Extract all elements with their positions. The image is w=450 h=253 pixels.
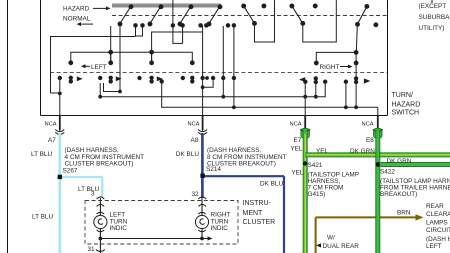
wire: U loop right 1 [255, 0, 275, 42]
svg-text:LT BLU: LT BLU [78, 186, 99, 193]
svg-text:DK BLU: DK BLU [176, 151, 199, 158]
svg-text:DK GRN: DK GRN [350, 148, 375, 155]
wire: U loop pole 2 [173, 25, 183, 43]
lamp RIGHT TURN INDIC [195, 198, 208, 239]
wire DK GRN/green E8 vertical [375, 131, 380, 253]
svg-text:CLUSTER: CLUSTER [243, 219, 276, 226]
wire: feed from top to pole 2 [172, 0, 174, 25]
svg-text:INDIC: INDIC [110, 225, 128, 232]
switch common bus bar (gray) [112, 4, 221, 8]
svg-text:SWITCH: SWITCH [392, 110, 420, 117]
svg-text:DK GRN: DK GRN [387, 158, 412, 165]
svg-text:NCA: NCA [45, 122, 57, 128]
svg-text:G415): G415) [308, 191, 326, 198]
svg-text:DUAL REAR: DUAL REAR [323, 243, 360, 250]
svg-text:S267: S267 [63, 168, 78, 175]
svg-text:RIGHT: RIGHT [320, 64, 340, 71]
svg-text:(EXCEPT: (EXCEPT [419, 3, 447, 10]
blade pole 7 [356, 5, 369, 27]
blade pole 2 [148, 5, 163, 26]
wire: page left border [7, 0, 9, 253]
wire: drop to line A [222, 26, 224, 97]
svg-text:REAR: REAR [426, 203, 444, 210]
contact pair pole 2 [171, 24, 184, 27]
svg-text:LEFT: LEFT [426, 243, 442, 250]
blade pole 6 [290, 4, 305, 25]
wire: pole 3 link [152, 32, 203, 43]
text REAR CLEARANCE LAMPS CIRCUIT [426, 203, 450, 250]
svg-text:HAZARD: HAZARD [63, 6, 90, 13]
wire: hook to pole1 drop [104, 83, 121, 92]
svg-text:S422: S422 [380, 169, 395, 176]
contact pair pole 1 [134, 24, 144, 27]
contact dot [262, 4, 266, 8]
blade pole 4 [207, 5, 222, 26]
wire: U loop pole 1 [136, 25, 143, 36]
blade pole 3 [178, 5, 193, 26]
contact pair pole 4 [226, 24, 235, 27]
svg-text:CIRCUIT: CIRCUIT [426, 227, 450, 234]
svg-text:CLUSTER BREAKOUT): CLUSTER BREAKOUT) [65, 161, 134, 168]
label HAZARD with arrow [63, 6, 111, 13]
turn/hazard switch box [41, 0, 388, 116]
label LEFT with arrow [81, 64, 107, 71]
wire green bar A [305, 152, 450, 157]
wire DK BLU from A8 [202, 133, 284, 253]
wire: line A [100, 82, 325, 97]
svg-text:3: 3 [91, 191, 95, 198]
label NORMAL with arrow [63, 16, 93, 27]
switch contacts: top row blades and dots [118, 4, 378, 27]
svg-text:INDIC: INDIC [211, 225, 229, 232]
wire: A8 column [202, 25, 204, 131]
svg-text:E8: E8 [366, 137, 374, 144]
wire YEL/green E7 vertical [303, 131, 308, 253]
svg-text:YEL: YEL [291, 170, 304, 177]
wire stubs to connectors [60, 116, 378, 131]
label W/ DUAL REAR [316, 235, 359, 251]
switch position dashed line (left/right row) [50, 72, 387, 74]
svg-text:BRN: BRN [397, 210, 411, 217]
contact dot [313, 4, 317, 8]
wire: riser to right bus [356, 24, 357, 52]
svg-text:NCA: NCA [362, 122, 374, 128]
blade pole 5 [242, 4, 257, 25]
svg-text:32: 32 [192, 191, 200, 198]
text dash harness A7 [65, 147, 145, 168]
svg-text:HAZARD: HAZARD [392, 102, 421, 109]
svg-text:YEL: YEL [316, 148, 329, 155]
connector symbol E7 [300, 129, 310, 139]
svg-text:(DASH HARNESS: (DASH HARNESS [426, 236, 450, 243]
lamp LEFT TURN INDIC [94, 198, 107, 239]
right row lower contacts [301, 77, 370, 84]
wire: vertical through left bus [110, 26, 112, 63]
wire: lamp return bus [99, 236, 213, 240]
contact dot [374, 23, 378, 27]
svg-text:SUBURBAN,: SUBURBAN, [419, 14, 450, 21]
svg-text:DK BLU: DK BLU [260, 181, 283, 188]
connector symbol E8 [373, 129, 383, 139]
svg-text:LEFT: LEFT [91, 64, 107, 71]
splice S422 [376, 162, 396, 175]
svg-text:BREAKOUT): BREAKOUT) [380, 191, 417, 198]
pin symbol cluster 3 [97, 197, 105, 199]
label EXCEPT SUBURBAN UTILITY [419, 0, 450, 32]
text tailstop harness S422 [380, 178, 450, 198]
blade pole 1 [118, 5, 133, 26]
wire BRN [316, 214, 424, 253]
lower internal wiring [51, 24, 378, 131]
svg-text:W/: W/ [327, 235, 335, 242]
wire: vertical through left bus 2 [151, 43, 153, 62]
splice S267 [58, 168, 78, 180]
svg-text:CLEARANCE: CLEARANCE [426, 211, 450, 218]
contact pair pole 3 [199, 24, 208, 27]
LEFT bus bar [69, 50, 194, 64]
label INSTRUMENT CLUSTER [243, 200, 276, 226]
wire: pole1 drop [119, 24, 121, 92]
svg-text:UTILITY): UTILITY) [419, 25, 445, 32]
text tailstop harness S421 [308, 172, 360, 199]
wire: E8 column [377, 107, 379, 131]
wire: right bus left leg to line A [315, 82, 317, 97]
svg-text:NCA: NCA [188, 122, 200, 128]
wire: loop pole1 to A7 drop [51, 37, 136, 94]
svg-text:LAMPS: LAMPS [426, 220, 448, 227]
svg-text:CLUSTER BREAKOUT): CLUSTER BREAKOUT) [207, 161, 276, 168]
wire: hook to A8 column [203, 79, 214, 87]
svg-text:LT BLU: LT BLU [32, 214, 53, 221]
label TURN/HAZARD SWITCH [392, 92, 421, 117]
left row lower contacts [58, 76, 236, 83]
svg-text:A7: A7 [48, 137, 56, 144]
svg-text:NORMAL: NORMAL [63, 16, 91, 23]
svg-text:TURN/: TURN/ [392, 92, 413, 99]
wire: hook to A7 column [51, 92, 60, 94]
text dash harness A8 [207, 147, 287, 168]
connector labels NCA [45, 122, 374, 128]
wire: line B [162, 79, 378, 107]
wire: drop to line B [233, 26, 235, 107]
splice S214 [200, 166, 221, 178]
svg-text:LT BLU: LT BLU [31, 151, 52, 158]
label RIGHT with arrow [320, 64, 353, 71]
svg-text:YEL: YEL [290, 146, 303, 153]
svg-text:E7: E7 [294, 137, 302, 144]
svg-text:31: 31 [88, 246, 96, 253]
splice S421 [303, 161, 323, 169]
internal switch wiring [51, 0, 337, 93]
wire: E7 column [304, 82, 306, 131]
pin symbol cluster 32 [198, 197, 206, 199]
switch position dashed line (hazard/normal row) [112, 15, 387, 17]
svg-text:A8: A8 [191, 137, 199, 144]
wire green bar B [377, 162, 450, 167]
svg-text:S421: S421 [308, 162, 323, 169]
connector symbol A7 [55, 130, 64, 135]
svg-text:INSTRU-: INSTRU- [243, 200, 272, 207]
svg-text:NCA: NCA [290, 122, 302, 128]
wire: A7 column [59, 79, 61, 131]
wire LT BLU from A7 [60, 133, 103, 253]
wire: right bus right leg to line B [355, 63, 357, 107]
instrument cluster dashed box [85, 201, 238, 245]
connector symbol A8 [198, 130, 207, 135]
pin 31 [88, 239, 105, 253]
RIGHT bus bar [314, 51, 358, 65]
wire: right contact to line B [345, 82, 347, 108]
svg-text:MENT: MENT [243, 210, 264, 217]
wire: U loop right 2 [303, 0, 337, 42]
junction dots lower wiring [58, 85, 358, 109]
